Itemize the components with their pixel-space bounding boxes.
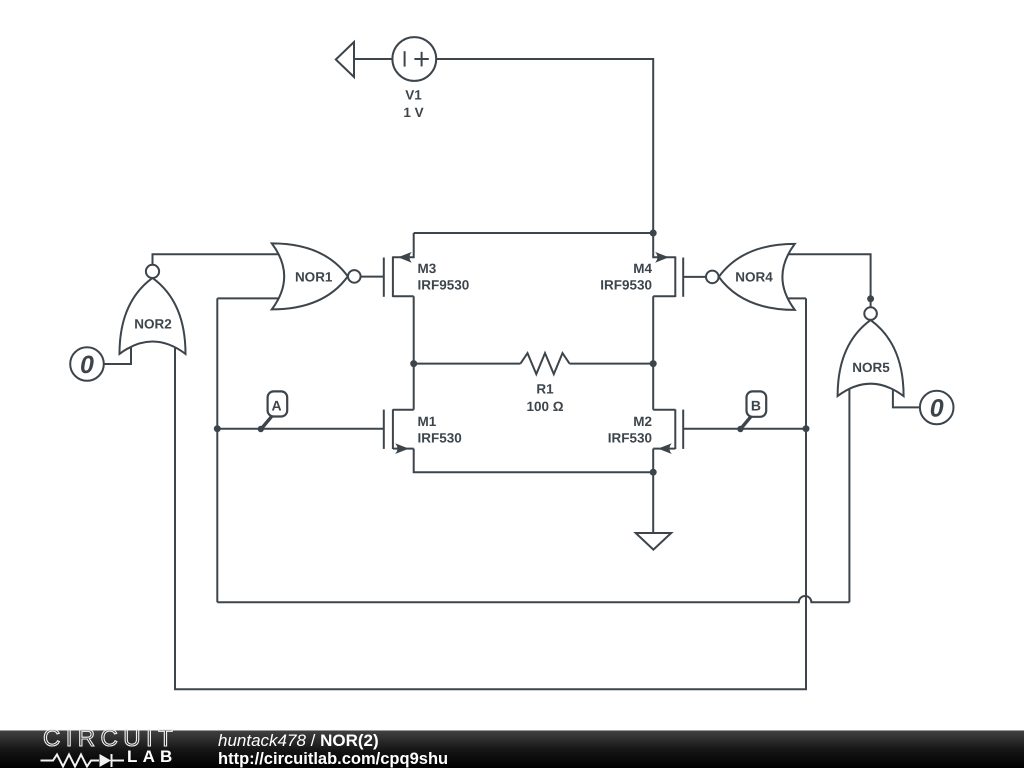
svg-text:NOR4: NOR4 bbox=[735, 270, 773, 285]
ground bbox=[636, 533, 672, 550]
resistor R1 bbox=[521, 353, 570, 374]
logo LAB bbox=[127, 747, 178, 767]
junction node B bbox=[803, 425, 810, 432]
wire NOR4 bottom input horizontal bbox=[784, 297, 806, 299]
svg-text:A: A bbox=[271, 398, 281, 414]
wire bottom source rail M1 to M2 bbox=[414, 449, 654, 473]
svg-text:IRF530: IRF530 bbox=[608, 430, 652, 445]
wire left column M3 drain to M1 drain through R1 left node bbox=[413, 296, 415, 410]
terminal 0 right bbox=[920, 391, 954, 425]
junction NOR5 output bbox=[867, 295, 874, 302]
svg-text:0: 0 bbox=[80, 351, 94, 379]
svg-text:B: B bbox=[751, 398, 761, 414]
flag B bbox=[737, 391, 766, 432]
wire V1 positive lead to top-right corner and down bbox=[436, 59, 653, 233]
svg-text:V1: V1 bbox=[405, 88, 422, 103]
flag A bbox=[258, 391, 288, 432]
svg-text:R1: R1 bbox=[536, 381, 554, 396]
svg-text:M1: M1 bbox=[418, 414, 437, 429]
transistor M3 PMOS bbox=[384, 233, 414, 297]
junction R1 left node bbox=[410, 360, 417, 367]
wire node A row bbox=[217, 428, 383, 430]
wire left feedback vertical from NOR1 input down to lower rail bbox=[216, 298, 218, 602]
footer bar bbox=[0, 730, 1024, 768]
wire NOR1 bottom input horizontal bbox=[217, 297, 282, 299]
svg-text:NOR1: NOR1 bbox=[295, 269, 333, 284]
wire M2 source down to rail bbox=[652, 449, 654, 473]
wire ground lead bbox=[652, 472, 654, 533]
wire NOR2 output up and right to NOR1 top input bbox=[153, 254, 283, 265]
logo CIRCUIT bbox=[43, 725, 178, 753]
junction node A bbox=[214, 425, 221, 432]
wire top rail between M3 and M4 drains bbox=[414, 232, 654, 234]
svg-text:NOR2: NOR2 bbox=[134, 317, 172, 332]
svg-text:IRF9530: IRF9530 bbox=[418, 277, 470, 292]
svg-text:0: 0 bbox=[930, 394, 944, 422]
wire mid rail y=602 from left vertical to NOR5 left input (with hop) bbox=[217, 596, 849, 602]
svg-text:M3: M3 bbox=[418, 261, 437, 276]
wire NOR5 left input vertical bbox=[848, 382, 850, 602]
transistor M4 PMOS bbox=[653, 233, 683, 297]
junction top right bbox=[650, 230, 657, 237]
wire right column M4 drain to M2 drain through R1 right node bbox=[652, 296, 654, 410]
wire NOR2 left input stub bbox=[104, 344, 131, 364]
svg-text:1 V: 1 V bbox=[403, 105, 423, 120]
logo resistor-diode squiggle bbox=[0, 731, 135, 768]
svg-text:IRF9530: IRF9530 bbox=[600, 277, 652, 292]
transistor M2 NMOS bbox=[653, 409, 683, 454]
svg-text:100 Ω: 100 Ω bbox=[526, 399, 563, 414]
wire NOR4 top input right and down to NOR5 output bbox=[784, 254, 871, 307]
wire NOR1 output to M3 gate bbox=[361, 276, 384, 278]
node flag triangle at V1 negative terminal bbox=[336, 42, 354, 77]
voltage source V1 bbox=[392, 37, 436, 81]
gate NOR4 bbox=[706, 244, 795, 310]
footer text bbox=[218, 732, 448, 768]
svg-text:M4: M4 bbox=[633, 261, 652, 276]
svg-text:IRF530: IRF530 bbox=[418, 430, 462, 445]
gate NOR2 bbox=[120, 265, 186, 354]
wire bottom rail y=689 bbox=[175, 298, 806, 689]
gate NOR5 bbox=[838, 307, 904, 396]
terminal 0 left bbox=[70, 347, 104, 381]
wire NOR5 right input stub bbox=[893, 382, 920, 407]
transistor M1 NMOS bbox=[384, 409, 414, 454]
wire V1 negative lead to flag bbox=[354, 58, 392, 60]
svg-text:M2: M2 bbox=[633, 414, 652, 429]
wire NOR4 output to M4 gate bbox=[683, 276, 706, 278]
wire node B row bbox=[683, 428, 806, 430]
svg-text:NOR5: NOR5 bbox=[852, 360, 890, 375]
junction R1 right node bbox=[650, 360, 657, 367]
gate NOR1 bbox=[272, 243, 361, 309]
junction bottom rail bbox=[650, 469, 657, 476]
wire R1 right lead bbox=[570, 363, 654, 365]
wire R1 left lead bbox=[414, 363, 521, 365]
